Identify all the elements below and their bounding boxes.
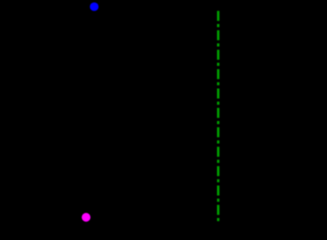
green dash-dot vertical line	[217, 11, 219, 222]
blue point	[90, 2, 99, 11]
magenta point	[82, 213, 91, 222]
